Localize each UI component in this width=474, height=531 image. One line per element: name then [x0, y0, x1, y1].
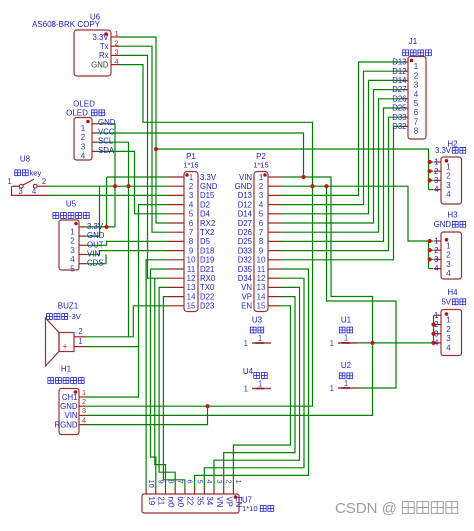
svg-text:2: 2: [42, 177, 46, 186]
svg-text:2: 2: [259, 182, 264, 191]
wire D35 P2 to U7: [195, 269, 309, 488]
svg-text:11: 11: [187, 265, 196, 274]
relay header H1: [48, 365, 86, 435]
svg-text:D22: D22: [200, 292, 214, 301]
matrix keypad J1: [403, 37, 432, 139]
expansion header H2 3.3V: [434, 140, 466, 205]
svg-text:D13: D13: [392, 58, 406, 67]
wire switch bottom to D15: [47, 194, 167, 196]
PIR sensor U5: [53, 200, 105, 274]
svg-text:1: 1: [434, 311, 438, 320]
svg-text:GND: GND: [200, 182, 218, 191]
svg-text:3: 3: [215, 480, 224, 484]
junction H1 GND RGND: [205, 404, 209, 408]
wire 5V row U1 to H4: [357, 342, 434, 344]
svg-text:BUZ1: BUZ1: [58, 302, 79, 311]
svg-text:key: key: [30, 169, 42, 178]
svg-text:3: 3: [82, 406, 86, 415]
svg-text:D14: D14: [392, 76, 407, 85]
svg-text:+: +: [62, 342, 68, 353]
svg-text:H3: H3: [447, 211, 458, 220]
svg-text:VP: VP: [242, 292, 252, 301]
svg-text:12: 12: [186, 274, 196, 283]
svg-text:VIN: VIN: [65, 411, 78, 420]
svg-text:5V: 5V: [441, 298, 451, 307]
svg-text:7: 7: [259, 228, 264, 237]
pad U2: [330, 361, 357, 393]
J1 net labels: [392, 58, 407, 131]
svg-text:8: 8: [259, 237, 264, 246]
svg-text:1*15: 1*15: [183, 161, 198, 170]
svg-text:8: 8: [189, 237, 194, 246]
svg-text:13: 13: [256, 283, 266, 292]
svg-text:1: 1: [344, 334, 348, 343]
svg-text:1: 1: [78, 337, 82, 346]
svg-text:34: 34: [205, 497, 214, 506]
wire U5 OUT to D5: [86, 241, 167, 245]
svg-text:5: 5: [70, 263, 75, 273]
svg-text:D2: D2: [200, 200, 210, 209]
svg-text:OLED: OLED: [66, 109, 88, 118]
svg-text:2: 2: [115, 38, 119, 47]
svg-text:3: 3: [259, 191, 264, 200]
wire D14 P2 to J1: [281, 80, 403, 213]
wire D12 P2 to J1: [281, 71, 403, 204]
svg-text:D12: D12: [392, 67, 406, 76]
svg-text:GND: GND: [434, 220, 452, 229]
wire U6 Rx to RX0 row: [119, 55, 167, 278]
svg-text:2: 2: [434, 320, 438, 329]
svg-text:6: 6: [186, 480, 195, 484]
svg-text:3.3V: 3.3V: [200, 173, 217, 182]
wire U5 VIN to D18: [86, 251, 167, 255]
expansion header H3 GND: [434, 211, 466, 280]
svg-text:1: 1: [189, 173, 194, 182]
svg-text:OLED: OLED: [73, 100, 95, 109]
svg-text:5: 5: [259, 210, 264, 219]
svg-text:J1: J1: [409, 37, 418, 46]
svg-text:D35: D35: [238, 265, 253, 274]
svg-text:D14: D14: [238, 210, 253, 219]
svg-text:D26: D26: [238, 228, 252, 237]
wire U6 GND to GND net and H1: [86, 65, 313, 407]
svg-text:1: 1: [258, 379, 262, 388]
svg-text:SDA: SDA: [98, 146, 115, 155]
fingerprint module U6: [32, 13, 119, 77]
svg-text:6: 6: [189, 219, 194, 228]
wire D33 P2 to J1: [281, 117, 403, 250]
svg-text:D21: D21: [200, 265, 214, 274]
svg-text:VIN: VIN: [239, 173, 252, 182]
svg-text:3: 3: [434, 255, 438, 264]
junction 3.3V tap: [154, 147, 158, 151]
wire D13 P2 to J1: [281, 62, 403, 195]
header P1 1x15: [167, 152, 218, 312]
svg-text:9: 9: [189, 246, 194, 255]
svg-text:1: 1: [434, 237, 438, 246]
svg-text:35: 35: [195, 497, 204, 506]
svg-text:14: 14: [256, 292, 266, 301]
svg-text:VN: VN: [241, 283, 252, 292]
wire OLED VCC to VIN: [97, 133, 304, 177]
svg-text:2: 2: [82, 397, 86, 406]
svg-text:VN: VN: [215, 497, 224, 508]
svg-text:4: 4: [81, 151, 86, 161]
svg-text:4: 4: [434, 339, 439, 348]
wire H1 RGND branch: [86, 406, 208, 424]
svg-text:6: 6: [259, 219, 264, 228]
svg-text:3.3V: 3.3V: [435, 146, 452, 155]
svg-text:8: 8: [414, 126, 419, 136]
svg-text:2: 2: [434, 246, 438, 255]
wire buzzer pin1 row: [86, 346, 139, 348]
svg-text:D15: D15: [200, 191, 215, 200]
wire U5 GND to GND row: [86, 186, 100, 236]
svg-text:1*10: 1*10: [242, 504, 258, 513]
svg-text:D25: D25: [238, 237, 253, 246]
svg-text:VCC: VCC: [98, 127, 115, 136]
wire EN P2 to U7: [233, 306, 290, 488]
svg-text:GND: GND: [91, 60, 109, 69]
svg-text:D12: D12: [238, 200, 252, 209]
junction H3 pin3: [428, 257, 432, 261]
svg-text:P2: P2: [256, 152, 266, 161]
wire buzzer pin2 to D23: [86, 306, 167, 337]
wire OLED SCL: [97, 142, 129, 337]
junction H2 pin1: [428, 160, 432, 164]
svg-text:19: 19: [147, 497, 156, 506]
svg-text:14: 14: [186, 292, 196, 301]
switch U8 door key: [7, 155, 47, 197]
junction GND column B: [324, 184, 328, 188]
svg-text:22: 22: [186, 497, 195, 506]
svg-text:3: 3: [434, 176, 438, 185]
svg-text:EN: EN: [241, 302, 252, 311]
svg-text:D26: D26: [392, 94, 406, 103]
svg-text:U4: U4: [243, 367, 254, 376]
svg-text:1: 1: [115, 29, 119, 38]
svg-text:U8: U8: [20, 155, 31, 164]
svg-text:4: 4: [434, 264, 439, 273]
svg-text:3: 3: [434, 329, 438, 338]
svg-text:1: 1: [330, 384, 334, 393]
junction H2 pin3: [428, 178, 432, 182]
svg-text:1: 1: [434, 158, 438, 167]
svg-text:P1: P1: [186, 152, 196, 161]
svg-text:4: 4: [446, 342, 451, 352]
svg-text:U1: U1: [341, 316, 352, 325]
svg-text:Tx: Tx: [100, 42, 109, 51]
svg-text:D33: D33: [238, 246, 252, 255]
svg-text:4: 4: [205, 480, 214, 484]
wire GND branch to U2 pad: [327, 186, 397, 388]
svg-text:GND: GND: [60, 402, 78, 411]
svg-text:D4: D4: [200, 210, 211, 219]
svg-text:D32: D32: [238, 256, 252, 265]
svg-text:CSDN @: CSDN @: [335, 500, 397, 517]
svg-text:D33: D33: [392, 113, 406, 122]
wire D27 P2 to J1: [281, 90, 403, 223]
wire OLED GND: [86, 124, 115, 227]
svg-text:10: 10: [186, 256, 196, 265]
junction H3 pin2: [428, 248, 432, 252]
svg-text:CDS: CDS: [87, 259, 103, 268]
svg-text:9: 9: [259, 246, 264, 255]
svg-text:1: 1: [82, 388, 86, 397]
svg-text:1: 1: [244, 385, 248, 394]
svg-text:1: 1: [244, 339, 248, 348]
junction 3.3V to U5: [104, 225, 108, 229]
wire D19 to U7: [146, 260, 167, 488]
svg-text:4: 4: [434, 185, 439, 194]
wire GND row switch to P1: [47, 185, 167, 187]
svg-text:1: 1: [7, 177, 11, 186]
svg-text:D27: D27: [392, 85, 406, 94]
junction H4 pin2: [431, 322, 435, 326]
svg-text:2: 2: [189, 182, 194, 191]
svg-text:GND: GND: [235, 182, 253, 191]
svg-text:tx0: tx0: [176, 497, 185, 508]
wire D26 P2 to J1: [281, 99, 403, 232]
wire D21 to U7: [151, 269, 168, 488]
svg-text:1: 1: [234, 480, 243, 484]
svg-text:12: 12: [256, 274, 266, 283]
svg-text:4: 4: [82, 415, 86, 424]
svg-text:D23: D23: [200, 302, 214, 311]
svg-text:D19: D19: [200, 256, 214, 265]
junction H3 pin1: [428, 239, 432, 243]
svg-text:D18: D18: [200, 246, 214, 255]
svg-text:-3V: -3V: [69, 312, 82, 321]
svg-text:RX0: RX0: [200, 274, 216, 283]
svg-text:5: 5: [195, 480, 204, 484]
buzzer BUZ1: [46, 302, 87, 367]
svg-text:4: 4: [446, 268, 451, 278]
svg-text:SCL: SCL: [98, 137, 114, 146]
wire U6 Tx to TX2 row: [119, 46, 167, 232]
wire D22 to U7: [163, 297, 185, 488]
OLED header: [66, 100, 116, 161]
svg-text:TX2: TX2: [200, 228, 214, 237]
svg-text:4: 4: [115, 57, 119, 66]
pad U1: [330, 316, 357, 349]
junction H4 pin4: [431, 341, 435, 345]
wire OLED SDA to D4: [97, 151, 167, 213]
svg-text:2: 2: [434, 167, 438, 176]
junction VIN feed: [301, 175, 305, 179]
wire D25 P2 to J1: [281, 108, 403, 241]
junction SCL column on GND row: [126, 184, 130, 188]
junction H4 pin3: [431, 332, 435, 336]
svg-text:GND: GND: [98, 118, 116, 127]
svg-text:D13: D13: [238, 191, 252, 200]
svg-text:3.3V: 3.3V: [87, 222, 104, 231]
svg-text:7: 7: [176, 480, 185, 484]
wire P1 pin1 row: [107, 176, 167, 178]
svg-text:U3: U3: [252, 316, 263, 325]
svg-text:RGND: RGND: [55, 420, 78, 429]
svg-text:8: 8: [166, 480, 175, 484]
svg-text:3: 3: [115, 48, 119, 57]
svg-text:13: 13: [186, 283, 196, 292]
svg-text:D34: D34: [238, 274, 253, 283]
svg-text:Rx: Rx: [99, 51, 109, 60]
wire 3.3V to U5: [106, 177, 108, 227]
svg-text:TX0: TX0: [200, 283, 215, 292]
wire VIN net P2 to H4 H1: [86, 177, 373, 415]
svg-text:1: 1: [258, 334, 262, 343]
svg-text:10: 10: [147, 480, 156, 488]
junction OLED GND to GND row: [113, 184, 117, 188]
svg-text:4: 4: [189, 200, 194, 209]
wire U6 3.3V to H2 and RX2: [119, 37, 167, 223]
svg-text:3: 3: [189, 191, 194, 200]
svg-text:4: 4: [446, 189, 451, 199]
svg-text:VIN: VIN: [87, 250, 100, 259]
svg-text:7: 7: [189, 228, 194, 237]
svg-text:1: 1: [259, 173, 264, 182]
svg-text:rx0: rx0: [166, 497, 175, 508]
wire D34 P2 to U7: [204, 278, 304, 488]
svg-text:10: 10: [256, 256, 266, 265]
svg-text:21: 21: [157, 497, 166, 506]
svg-text:D5: D5: [200, 237, 211, 246]
junction 5V row: [370, 341, 374, 345]
svg-text:2: 2: [78, 327, 82, 336]
svg-text:1: 1: [330, 339, 334, 348]
wire GND net P2 to H3: [281, 186, 429, 268]
expansion header H4 5V: [434, 288, 466, 356]
svg-text:H4: H4: [447, 288, 458, 297]
svg-text:D32: D32: [392, 122, 406, 131]
svg-text:D27: D27: [238, 219, 252, 228]
svg-text:15: 15: [256, 302, 266, 311]
svg-text:VP: VP: [225, 497, 234, 507]
svg-text:4: 4: [259, 200, 264, 209]
svg-text:1*15: 1*15: [253, 161, 268, 170]
svg-text:RX2: RX2: [200, 219, 215, 228]
svg-text:GND: GND: [87, 231, 105, 240]
svg-text:AS608-BRK COPY: AS608-BRK COPY: [32, 20, 101, 29]
bottom expansion header U7 1x10: [142, 480, 274, 514]
svg-text:9: 9: [157, 480, 166, 484]
junction GND column A: [310, 184, 314, 188]
svg-text:H1: H1: [61, 365, 72, 374]
header P2 1x15: [235, 152, 281, 312]
svg-text:1: 1: [344, 379, 348, 388]
svg-text:5: 5: [189, 210, 194, 219]
wire U5 CDS: [86, 255, 106, 264]
junction H2 pin2: [428, 169, 432, 173]
svg-text:OUT: OUT: [87, 240, 104, 249]
svg-text:U2: U2: [341, 361, 352, 370]
wire RX0 to U7: [155, 278, 166, 488]
svg-text:D25: D25: [392, 104, 407, 113]
svg-text:15: 15: [186, 302, 196, 311]
wire TX0 to U7: [159, 287, 175, 488]
pad U4: [243, 367, 271, 394]
svg-text:U5: U5: [66, 200, 77, 209]
wire D32 P2 to J1: [281, 126, 403, 259]
wire VP P2 to U7: [224, 297, 295, 488]
wire D2 CH1 buzzer net: [86, 205, 167, 397]
pad U3: [244, 316, 271, 349]
svg-text:11: 11: [257, 265, 266, 274]
svg-text:CH1: CH1: [62, 393, 78, 402]
svg-text:2: 2: [225, 480, 234, 484]
wire VN P2 to U7: [214, 287, 300, 488]
